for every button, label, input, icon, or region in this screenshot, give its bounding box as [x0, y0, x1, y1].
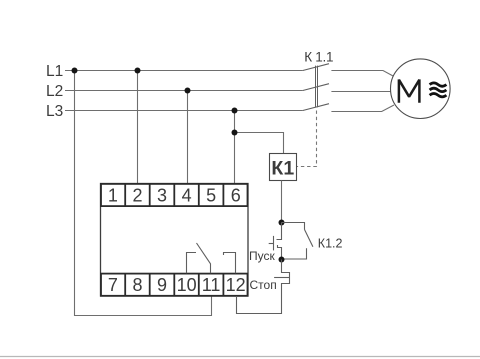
svg-text:2: 2 [132, 186, 142, 206]
wire branch to K1 coil [235, 133, 284, 154]
wire riser L1 to terminal 2 [137, 71, 139, 185]
svg-text:L2: L2 [46, 83, 63, 100]
terminal divider 11|12 [222, 274, 224, 296]
bottom page rule [0, 356, 480, 358]
relay internal contact lead from terminal 12 [224, 253, 236, 274]
push button Pusk actuator [269, 243, 274, 245]
svg-text:К1: К1 [271, 158, 294, 180]
junction dot L2 terminal 4 riser [185, 88, 191, 94]
contactor K1.1 pole 3 blade [303, 104, 329, 111]
terminal divider 10|11 [198, 274, 200, 296]
contact K1.2 bottom terminal [282, 248, 307, 259]
terminal divider 8|9 [149, 274, 151, 296]
wire motor feed middle [331, 91, 390, 93]
terminal strip bottom row frame [101, 274, 248, 296]
wire riser L3 to terminal 6 [234, 111, 236, 185]
push button Stop top lead [282, 260, 290, 273]
svg-text:5: 5 [206, 186, 216, 206]
push button Stop bridge [289, 272, 291, 284]
wire motor feed top [331, 71, 394, 77]
contactor K1.1 linkage bar [316, 66, 318, 108]
relay body outline [101, 184, 249, 297]
junction dot K1 coil branch [232, 130, 238, 136]
terminal divider 5|6 [222, 184, 224, 206]
motor M circle [391, 59, 451, 119]
push button Pusk bridge [273, 236, 275, 251]
wire left riser from L1 down to bottom bus and terminal 11 [75, 71, 212, 316]
terminal divider 2|3 [149, 184, 151, 206]
dashed mechanical link to K1 coil [297, 111, 317, 167]
junction dot above start button [279, 220, 285, 226]
svg-text:11: 11 [202, 275, 221, 295]
svg-text:L1: L1 [46, 63, 63, 80]
contactor K1.1 pole 1 blade [303, 64, 329, 71]
wire K1 coil to junction [281, 181, 283, 223]
wire riser L2 to terminal 4 [187, 91, 189, 185]
terminal divider 9|10 [173, 274, 175, 296]
junction dot L1 left riser [72, 68, 78, 74]
relay coil K1 box [270, 154, 297, 181]
contact K1.2 blade [305, 230, 313, 247]
svg-text:1: 1 [108, 186, 118, 206]
push button Pusk bottom lead [278, 245, 282, 260]
wire L1 bus [65, 70, 303, 72]
svg-text:8: 8 [132, 275, 142, 295]
svg-text:3: 3 [157, 186, 167, 206]
svg-text:9: 9 [157, 275, 167, 295]
svg-text:7: 7 [108, 275, 118, 295]
svg-text:6: 6 [231, 186, 241, 206]
terminal divider 4|5 [198, 184, 200, 206]
svg-text:К1.2: К1.2 [318, 237, 343, 251]
motor letter M [399, 79, 420, 102]
svg-text:L3: L3 [46, 103, 63, 120]
terminal strip top row frame [101, 184, 248, 206]
terminal divider 3|4 [173, 184, 175, 206]
junction dot below start button [279, 257, 285, 263]
contactor K1.1 pole 2 blade [303, 84, 329, 91]
junction dot L1 terminal 2 riser [135, 68, 141, 74]
relay internal changeover contact lead from terminal 10 [187, 253, 197, 274]
svg-text:Пуск: Пуск [249, 249, 275, 263]
wire L2 bus [65, 90, 303, 92]
svg-text:12: 12 [226, 275, 246, 295]
relay internal contact blade on terminal 11 [197, 243, 211, 273]
push button Stop bottom lead [237, 284, 290, 314]
push button Stop actuator [274, 277, 289, 279]
terminal divider 1|2 [124, 184, 126, 206]
junction dot L3 terminal 6 riser [232, 108, 238, 114]
push button Pusk top lead [277, 223, 282, 240]
terminal divider 7|8 [124, 274, 126, 296]
svg-text:Стоп: Стоп [250, 278, 277, 292]
contact K1.2 top branch [282, 223, 305, 230]
motor AC waves symbol [430, 83, 447, 97]
svg-text:4: 4 [182, 186, 192, 206]
svg-text:К 1.1: К 1.1 [304, 49, 333, 64]
wire motor feed bottom [331, 105, 394, 112]
wire L3 bus [65, 110, 303, 112]
svg-text:10: 10 [177, 275, 197, 295]
